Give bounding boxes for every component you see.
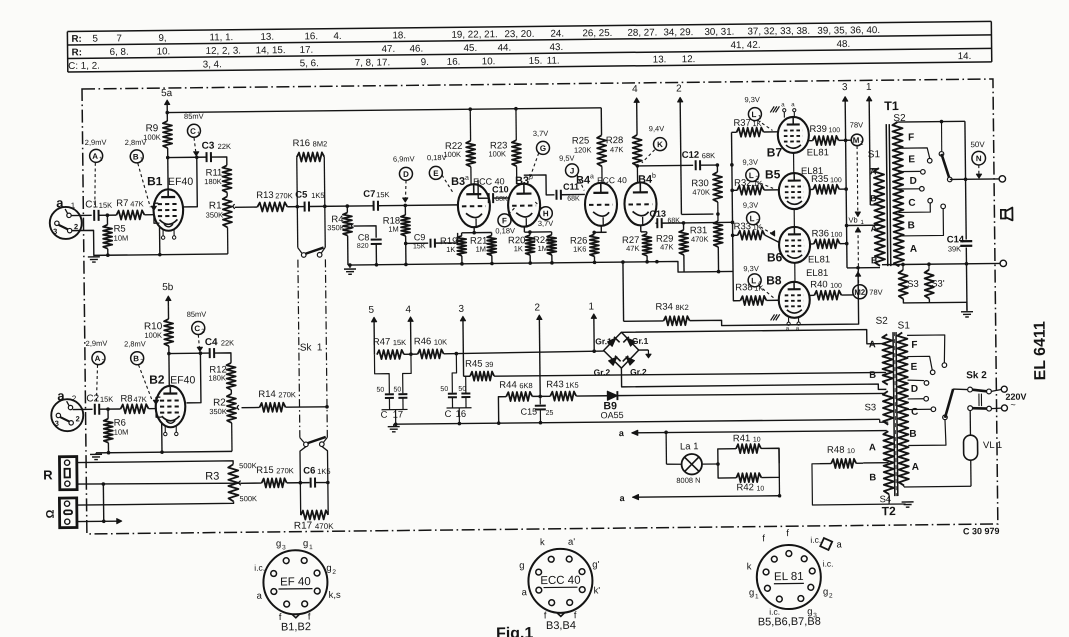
- svg-text:R17: R17: [294, 520, 313, 531]
- svg-text:3: 3: [55, 419, 59, 428]
- svg-text:85mV: 85mV: [184, 112, 204, 121]
- Vb1 measuring path: [856, 146, 859, 213]
- node B4b anode: [636, 166, 638, 182]
- svg-text:78V: 78V: [869, 288, 882, 297]
- svg-text:C15: C15: [521, 407, 538, 417]
- svg-text:S3: S3: [864, 402, 876, 413]
- svg-text:6,9mV: 6,9mV: [393, 154, 415, 163]
- measuring point L1 9.3V: [748, 108, 761, 121]
- resistor R24 1M: [551, 232, 553, 235]
- ground T1: [966, 302, 968, 311]
- supply rail to R25: [167, 108, 601, 113]
- svg-text:100: 100: [831, 232, 843, 239]
- svg-text:22K: 22K: [218, 142, 231, 151]
- svg-text:9,3V: 9,3V: [744, 95, 760, 104]
- svg-text:B3,B4: B3,B4: [546, 620, 576, 632]
- svg-text:La 1: La 1: [680, 441, 699, 452]
- svg-text:3: 3: [842, 82, 848, 93]
- svg-text:C: C: [190, 127, 196, 136]
- svg-text:10M: 10M: [114, 428, 129, 437]
- svg-text:2: 2: [534, 302, 540, 313]
- svg-text:85mV: 85mV: [187, 310, 207, 319]
- svg-text:16.: 16.: [304, 31, 318, 42]
- svg-text:50: 50: [458, 386, 466, 393]
- transformer T2 winding S4: [883, 431, 894, 494]
- svg-text:1: 1: [588, 301, 594, 312]
- svg-text:ECC 40: ECC 40: [540, 575, 580, 587]
- svg-text:C 30 979: C 30 979: [963, 526, 1000, 536]
- svg-text:24.: 24.: [550, 28, 564, 39]
- component cross-reference table: [67, 21, 991, 31]
- svg-text:3,7V: 3,7V: [533, 129, 549, 138]
- svg-text:F: F: [911, 340, 917, 351]
- triode B3b ECC40: [508, 183, 540, 226]
- svg-text:B: B: [909, 429, 916, 440]
- svg-text:T1: T1: [884, 99, 899, 113]
- svg-text:R42: R42: [736, 482, 754, 493]
- triode B4b ECC40: [624, 182, 656, 225]
- svg-text:1M: 1M: [388, 225, 399, 234]
- B2 cathode to bus: [161, 424, 163, 452]
- transformer T1 secondary S2: [892, 122, 904, 266]
- svg-text:17: 17: [393, 409, 404, 420]
- svg-text:g: g: [276, 538, 281, 549]
- svg-text:50: 50: [393, 387, 401, 394]
- svg-text:i.c.: i.c.: [823, 559, 834, 569]
- svg-text:Gr.2: Gr.2: [630, 367, 647, 377]
- wire a1 pin2 to ground: [72, 230, 94, 255]
- svg-text:2: 2: [74, 222, 78, 231]
- svg-text:R7: R7: [116, 198, 128, 209]
- measuring point A1 2.9mV: [90, 149, 103, 162]
- svg-text:L: L: [750, 214, 755, 223]
- switch Sk1 lower contacts: [300, 438, 304, 443]
- resistor R1 350K potentiometer: [226, 192, 228, 196]
- svg-text:M2: M2: [854, 288, 866, 297]
- wire C5 to C7: [309, 205, 374, 208]
- svg-text:13.: 13.: [260, 32, 274, 43]
- resistor R9 100K: [166, 113, 168, 121]
- selector arm: [941, 154, 949, 180]
- bridge to S3 wire W4: [621, 365, 886, 392]
- T1 secondary top wire: [897, 120, 964, 123]
- transformer T1 core: [886, 124, 888, 266]
- svg-text:3,7V: 3,7V: [538, 219, 554, 228]
- triode B4a ECC40: [585, 183, 617, 226]
- svg-text:15K: 15K: [100, 395, 113, 404]
- schematic border frame: [82, 79, 998, 534]
- svg-text:470K: 470K: [315, 522, 334, 531]
- svg-text:R:: R:: [72, 47, 82, 58]
- resistor R42 10: [718, 464, 736, 478]
- svg-text:47K: 47K: [660, 243, 673, 252]
- svg-text:R48: R48: [827, 445, 845, 456]
- wire a2 to C2: [73, 408, 93, 410]
- svg-text:OA55: OA55: [601, 410, 624, 420]
- svg-text:R15: R15: [256, 465, 274, 476]
- svg-text:100: 100: [828, 127, 840, 134]
- svg-text:L: L: [751, 110, 756, 119]
- svg-text:a': a': [568, 537, 575, 548]
- svg-text:8M2: 8M2: [313, 139, 328, 148]
- svg-text:R40: R40: [810, 279, 828, 290]
- svg-text:k': k': [593, 585, 600, 596]
- svg-text:13.: 13.: [653, 54, 667, 65]
- svg-text:14, 15.: 14, 15.: [256, 45, 286, 56]
- svg-text:C9: C9: [414, 232, 426, 242]
- svg-text:EL81: EL81: [806, 268, 828, 279]
- measuring point L4 9.3V: [748, 274, 761, 287]
- svg-text:3: 3: [458, 304, 464, 315]
- capacitor C15 25: [539, 396, 541, 404]
- resistor R12 180K: [227, 363, 236, 390]
- volume control R3 500K: [77, 461, 233, 466]
- lamp to R41 R42: [702, 463, 718, 465]
- ground bus bottom: [394, 419, 880, 425]
- svg-text:C13: C13: [649, 209, 666, 219]
- svg-text:R45: R45: [465, 359, 483, 370]
- svg-text:R41: R41: [733, 433, 751, 444]
- svg-text:1: 1: [755, 593, 759, 600]
- svg-text:C: C: [911, 407, 918, 418]
- wire C7 to B3a grid: [378, 204, 458, 207]
- resistor R43 1K5: [550, 391, 576, 400]
- input connector a1: [50, 207, 82, 239]
- svg-text:T2: T2: [882, 504, 896, 518]
- svg-text:0,18V: 0,18V: [495, 226, 515, 235]
- svg-text:10M: 10M: [114, 234, 129, 243]
- B2 screen lead: [186, 353, 201, 403]
- measuring point E 0.18V: [429, 166, 442, 179]
- measuring point B1 2.8mV: [130, 150, 143, 163]
- capacitor C13 68K: [656, 222, 657, 224]
- B3a cathode network: [473, 227, 475, 232]
- svg-text:VL 1: VL 1: [983, 440, 1002, 451]
- resistor R14 270K: [242, 406, 260, 408]
- svg-text:3, 4.: 3, 4.: [203, 59, 222, 70]
- resistor R4 350K: [346, 206, 348, 212]
- lamp La1 8008N: [665, 432, 667, 464]
- svg-text:S1: S1: [868, 149, 881, 160]
- svg-text:9.: 9.: [421, 57, 429, 68]
- svg-text:39: 39: [485, 360, 493, 369]
- measuring point L2 9.3V: [746, 168, 759, 181]
- svg-text:D: D: [910, 176, 917, 187]
- svg-text:14.: 14.: [958, 51, 972, 62]
- output terminal bottom: [1000, 260, 1006, 266]
- svg-text:g: g: [519, 560, 524, 571]
- pentode B6 EL81: [779, 227, 810, 263]
- svg-text:R44: R44: [499, 380, 517, 391]
- transformer T2 winding S2: [882, 334, 893, 385]
- svg-text:Sk: Sk: [300, 342, 313, 353]
- measuring point M2 78V: [853, 285, 867, 299]
- svg-text:48.: 48.: [836, 39, 850, 50]
- svg-text:68K: 68K: [495, 196, 508, 203]
- svg-text:B: B: [907, 220, 914, 231]
- svg-text:9,4V: 9,4V: [649, 124, 665, 133]
- svg-text:C12: C12: [682, 150, 700, 161]
- svg-text:3: 3: [282, 544, 286, 551]
- svg-text:500K: 500K: [239, 494, 257, 503]
- svg-text:R3: R3: [205, 471, 219, 483]
- svg-text:16: 16: [456, 409, 467, 420]
- svg-text:B7: B7: [767, 145, 783, 159]
- svg-text:2: 2: [676, 83, 682, 94]
- ground symbol bottom bus: [393, 424, 395, 426]
- R1 wiper to R13: [233, 204, 235, 209]
- T2 ground: [888, 494, 890, 504]
- svg-text:19, 22, 21.: 19, 22, 21.: [451, 29, 497, 41]
- wire terminal2 to R30 R31 node: [681, 213, 713, 215]
- capacitor C1 15K: [93, 210, 95, 221]
- svg-text:47.: 47.: [382, 44, 396, 55]
- capacitor C16 50+50: [452, 354, 457, 393]
- measuring point F 0.18V: [498, 214, 511, 227]
- resistor R17 470K: [301, 510, 329, 519]
- output hot wire: [947, 177, 952, 182]
- resistor R8 47K: [120, 404, 148, 413]
- svg-text:22K: 22K: [221, 338, 234, 347]
- svg-text:8008 N: 8008 N: [676, 476, 700, 485]
- svg-text:820: 820: [357, 243, 369, 250]
- svg-text:B: B: [133, 354, 139, 363]
- svg-text:A: A: [869, 339, 876, 350]
- svg-text:350K: 350K: [206, 210, 224, 219]
- resistor R20 1K: [529, 232, 531, 235]
- input connector R: [59, 457, 77, 490]
- R48 return loop: [812, 463, 889, 505]
- capacitor C5 1K5: [304, 202, 306, 212]
- svg-text:k,s: k,s: [329, 590, 342, 601]
- resistor R19 1K: [461, 233, 463, 236]
- svg-text:12, 2, 3.: 12, 2, 3.: [206, 46, 242, 57]
- wire a1 to C1: [71, 214, 91, 216]
- pentode B7 EL81: [778, 117, 809, 153]
- svg-text:EL 81: EL 81: [774, 571, 804, 583]
- svg-text:F: F: [908, 132, 914, 143]
- input wire middle: [77, 482, 241, 485]
- resistor R21 1M: [491, 233, 493, 236]
- svg-text:2: 2: [332, 569, 336, 576]
- svg-text:2,9mV: 2,9mV: [85, 138, 107, 147]
- resistor R45 39: [464, 375, 470, 377]
- svg-text:47K: 47K: [133, 395, 146, 404]
- resistor R30 470K: [716, 165, 718, 172]
- measuring point N 50V: [972, 151, 986, 165]
- svg-text:C6: C6: [303, 465, 315, 476]
- svg-text:R46: R46: [414, 336, 432, 347]
- svg-text:15K: 15K: [99, 201, 112, 210]
- resistor R13 270K: [257, 202, 287, 211]
- rectifier bridge Gr1 Gr2: [603, 332, 638, 368]
- svg-text:180K: 180K: [204, 177, 222, 186]
- svg-text:7, 8, 17.: 7, 8, 17.: [355, 57, 391, 68]
- svg-text:11.: 11.: [547, 56, 560, 67]
- svg-text:1: 1: [71, 201, 76, 210]
- ground symbol ch2: [95, 452, 97, 455]
- loudspeaker icon: [1001, 210, 1006, 219]
- measuring point H 3.7V: [539, 207, 552, 220]
- resistor R10 100K: [167, 307, 169, 319]
- svg-text:R: R: [43, 467, 53, 482]
- resistor R46 10K: [404, 353, 418, 355]
- T2 S4 heater top wire: [632, 430, 887, 433]
- svg-text:120K: 120K: [574, 145, 592, 154]
- capacitor C14 39K: [960, 240, 972, 242]
- resistor R44 6K8: [498, 397, 506, 423]
- svg-text:B1: B1: [147, 174, 163, 188]
- wire R13 to C5: [287, 206, 304, 208]
- svg-text:C4: C4: [205, 337, 218, 348]
- resistor R5 10M: [106, 215, 108, 224]
- svg-text:8K2: 8K2: [675, 303, 688, 312]
- svg-text:A: A: [912, 462, 919, 473]
- svg-text:15.: 15.: [529, 56, 543, 67]
- svg-text:9,5V: 9,5V: [559, 154, 575, 163]
- Sk1 mechanical link: [298, 260, 300, 438]
- EL81 top cap symbol: [820, 538, 832, 550]
- svg-text:100: 100: [830, 283, 842, 290]
- svg-text:G: G: [540, 144, 546, 153]
- svg-text:4.: 4.: [333, 31, 341, 42]
- svg-text:R47: R47: [373, 337, 391, 348]
- svg-text:E: E: [911, 362, 918, 373]
- resistor R7 47K: [116, 210, 144, 219]
- svg-text:23, 20.: 23, 20.: [504, 29, 534, 40]
- svg-text:78V: 78V: [850, 120, 863, 129]
- svg-text:R:: R:: [71, 34, 81, 45]
- svg-text:H: H: [543, 209, 549, 218]
- measuring point C2 85mV: [192, 321, 205, 334]
- resistor R16 8M2: [297, 152, 325, 161]
- capacitor C17 50+50: [374, 355, 389, 394]
- triode B2 EF40: [169, 405, 171, 407]
- svg-text:100: 100: [830, 177, 842, 184]
- svg-text:270K: 270K: [278, 390, 296, 399]
- svg-text:R39: R39: [809, 124, 827, 135]
- mains terminals 220V: [991, 390, 1001, 392]
- svg-text:26, 25.: 26, 25.: [582, 28, 612, 39]
- node B2 anode junction: [167, 352, 171, 356]
- svg-text:39, 35, 36, 40.: 39, 35, 36, 40.: [817, 25, 880, 37]
- svg-text:15K: 15K: [393, 338, 406, 347]
- svg-text:R13: R13: [256, 190, 274, 201]
- transformer T2 primary S1: [897, 332, 909, 485]
- resistor R23 100K: [514, 107, 518, 111]
- diode B9 OA55: [607, 391, 617, 400]
- svg-text:g': g': [592, 559, 599, 570]
- B8 heater hash: [771, 314, 775, 320]
- svg-text:EF40: EF40: [168, 176, 193, 188]
- wire C4 to R12: [214, 353, 231, 363]
- svg-text:EF 40: EF 40: [280, 576, 311, 588]
- svg-text:C: C: [908, 198, 915, 209]
- resistor R32 1K: [730, 189, 734, 193]
- measuring point B2 2.8mV: [131, 352, 144, 365]
- svg-text:C1: C1: [85, 199, 98, 210]
- svg-text:100K: 100K: [443, 150, 461, 159]
- capacitor C4 22K: [200, 352, 209, 354]
- resistor R33 1K: [731, 234, 735, 238]
- wire R8 to B2 grid: [149, 408, 156, 410]
- bridge DC minus arrow: [639, 349, 649, 351]
- svg-text:~: ~: [1010, 400, 1015, 410]
- svg-text:g: g: [303, 538, 308, 549]
- svg-text:2: 2: [829, 593, 833, 600]
- svg-text:1: 1: [309, 544, 313, 551]
- svg-text:B2: B2: [149, 373, 165, 387]
- svg-text:R8: R8: [120, 393, 132, 404]
- cathode ground bus: [348, 262, 657, 265]
- svg-text:1K5: 1K5: [311, 191, 324, 200]
- damping coils S3 S3': [902, 264, 904, 269]
- svg-text:k: k: [540, 537, 545, 548]
- svg-text:B3: B3: [451, 176, 465, 188]
- svg-text:B5: B5: [765, 167, 781, 181]
- svg-text:EL81: EL81: [808, 254, 830, 265]
- svg-text:K: K: [657, 140, 663, 149]
- svg-text:g: g: [749, 587, 754, 598]
- svg-text:47K: 47K: [130, 199, 143, 208]
- svg-text:B: B: [869, 370, 876, 381]
- svg-text:10.: 10.: [482, 56, 496, 67]
- svg-text:16.: 16.: [447, 57, 461, 68]
- grid bus vertical: [732, 165, 733, 272]
- svg-text:1K6: 1K6: [573, 244, 586, 253]
- svg-text:44.: 44.: [498, 43, 512, 54]
- svg-text:Vb: Vb: [848, 215, 857, 224]
- svg-text:a: a: [56, 195, 64, 210]
- svg-text:47K: 47K: [626, 244, 639, 253]
- socket diagram EF40 B1 B2: [263, 550, 328, 615]
- svg-text:2: 2: [72, 394, 77, 403]
- svg-text:28, 27.: 28, 27.: [627, 27, 657, 38]
- svg-text:Gr.1: Gr.1: [595, 336, 612, 346]
- measuring point G 3.7V: [536, 141, 549, 154]
- capacitor C7 15K: [373, 201, 375, 211]
- svg-text:100K: 100K: [488, 149, 506, 158]
- svg-text:34, 29.: 34, 29.: [663, 27, 693, 38]
- svg-text:17.: 17.: [300, 45, 314, 56]
- svg-text:4: 4: [405, 304, 411, 315]
- resistor R36 100: [810, 243, 814, 245]
- svg-text:R43: R43: [546, 379, 564, 390]
- svg-text:43.: 43.: [550, 42, 564, 53]
- capacitor C12 68K: [637, 164, 693, 167]
- svg-text:B5,B6,B7,B8: B5,B6,B7,B8: [758, 616, 821, 629]
- svg-text:39K: 39K: [948, 244, 961, 253]
- svg-text:7: 7: [116, 33, 122, 44]
- svg-text:5: 5: [368, 305, 374, 316]
- svg-text:EL81: EL81: [807, 147, 829, 158]
- svg-text:D: D: [403, 170, 409, 179]
- svg-text:C: 1, 2.: C: 1, 2.: [68, 61, 100, 72]
- resistor R2 350K potentiometer: [230, 390, 232, 394]
- wire C2 to R8: [99, 408, 120, 410]
- B4a cathode resistor R26 1K6: [600, 226, 602, 232]
- svg-text:Ω: Ω: [45, 509, 57, 518]
- output selector contacts: [940, 122, 942, 151]
- transformer T2 winding S3: [883, 391, 893, 425]
- svg-text:a: a: [590, 173, 594, 180]
- svg-text:J: J: [570, 166, 575, 175]
- svg-text:F: F: [502, 216, 507, 225]
- svg-text:B1,B2: B1,B2: [281, 621, 311, 633]
- node B1 anode junction: [166, 156, 170, 160]
- resistor R25 120K: [597, 135, 606, 166]
- svg-text:R16: R16: [293, 138, 311, 149]
